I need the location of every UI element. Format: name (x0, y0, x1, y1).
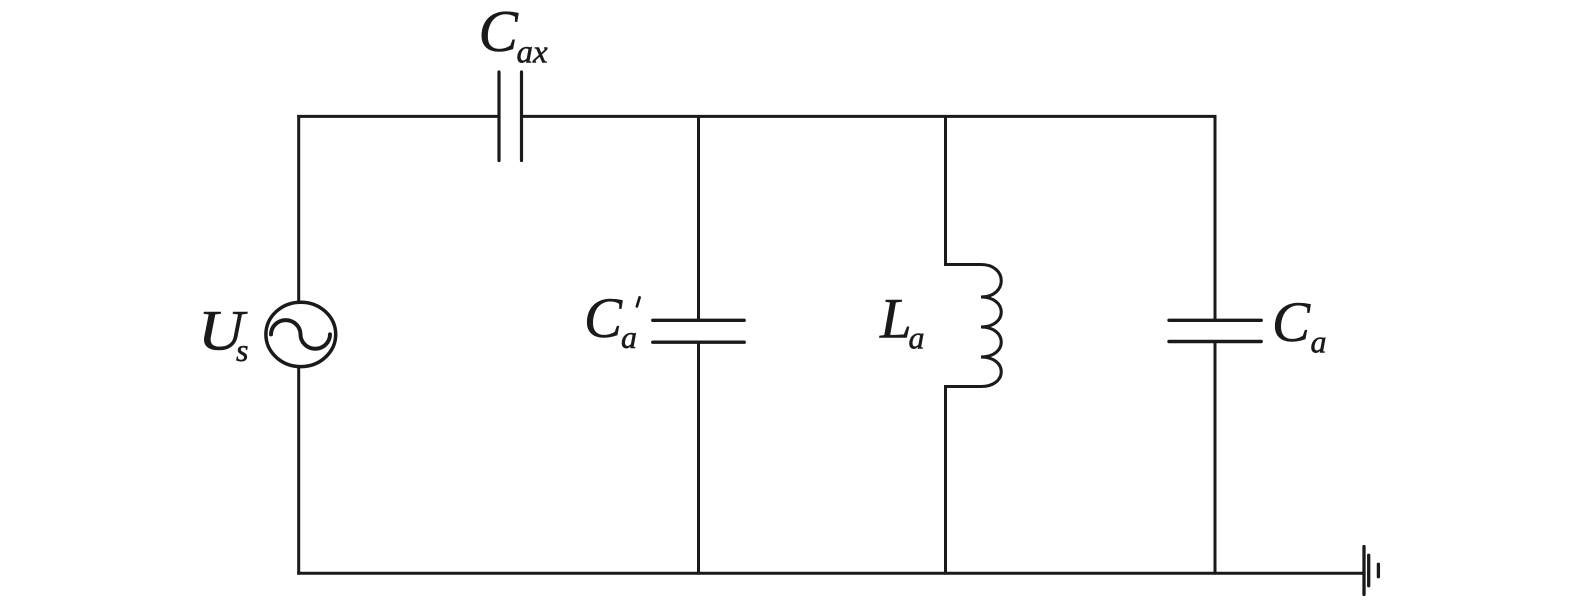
svg-text:a: a (621, 319, 637, 355)
svg-text:a: a (1311, 323, 1327, 359)
svg-text:ax: ax (517, 34, 549, 70)
svg-text:L: L (879, 287, 912, 350)
svg-text:C: C (584, 287, 623, 350)
svg-text:C: C (1272, 291, 1311, 354)
svg-text:a: a (909, 319, 925, 355)
svg-text:C: C (479, 0, 519, 64)
svg-text:s: s (236, 332, 248, 368)
